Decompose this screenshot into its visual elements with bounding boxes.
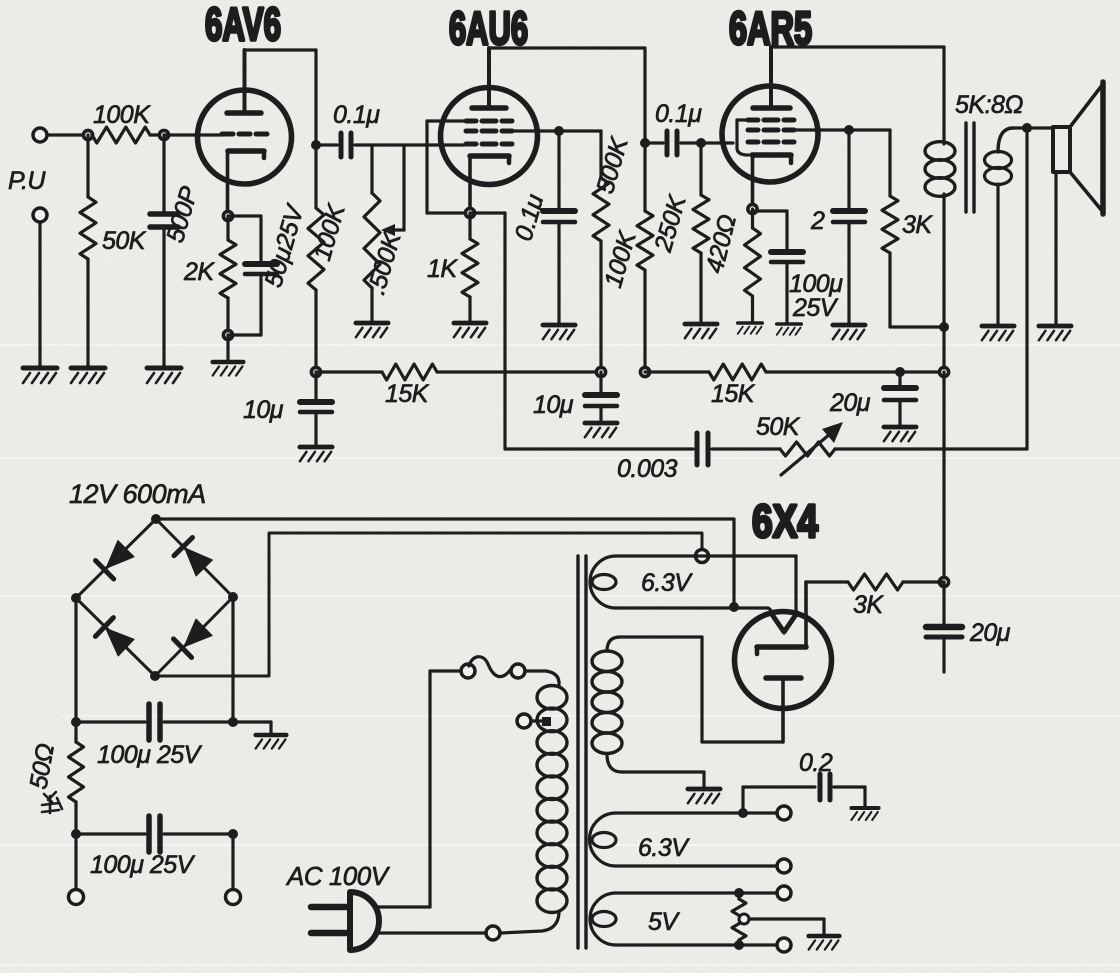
svg-text:2: 2 [810,207,825,235]
terminal 6.3V second top [777,806,791,820]
wire V1 plate top run [245,48,317,51]
wire speaker return [1054,172,1057,325]
wire fuse to primary [525,669,546,672]
diode D4 bottom-right [184,619,212,647]
wire 100K to node B [150,133,164,136]
resistor 100K plate load V1 [314,145,317,208]
AC plug prongs [311,904,349,911]
power transformer core [576,556,579,948]
svg-text:6.3V: 6.3V [641,569,693,597]
wire V3 plate top run [771,45,944,48]
ground 500K pot [356,323,388,337]
ground 20u rail [884,427,916,441]
ground secondary [982,326,1014,340]
terminal AC line [486,926,500,940]
node rail 20u junction [895,367,905,377]
6X4 plate [766,675,801,681]
terminal DC out right [226,890,241,905]
node 5V bottom junction [734,940,744,950]
wire feedback bottom left [505,447,693,450]
node rail B+ junction [939,367,948,376]
V2 g3 dashes [466,119,476,124]
wire DC out right [231,834,234,889]
resistor 420ohm cathode V3 [751,209,754,228]
ground 10u second [585,423,617,437]
primary tap wire [531,719,543,722]
capacitor 0.1u screen bypass [557,131,560,211]
output transformer core [964,123,967,212]
capacitor 0.003 feedback [695,433,700,465]
node 5V top junction [734,888,744,898]
svg-text:2K: 2K [183,258,215,286]
terminal DC out left [69,890,84,905]
svg-text:0.003: 0.003 [617,455,678,483]
svg-text:6AV6: 6AV6 [205,0,281,50]
AC plug body [350,892,379,950]
diode D3 bottom-left [106,628,134,656]
svg-text:6X4: 6X4 [752,495,818,547]
svg-text:5V: 5V [648,908,680,936]
wire grid line V2 [372,143,464,146]
pot 50K arrow [781,434,830,475]
capacitor 50u 25V cathode bypass [228,214,261,217]
ground heater supply [256,735,287,749]
V3 g2 dashes [748,128,758,133]
ground screen bypass [543,325,575,339]
hum balance pot [737,893,740,899]
node 6.3V second junction [738,808,748,818]
wire row1 to ground [233,720,271,723]
node rail 100K junction [596,367,605,376]
ground 100u [777,324,801,335]
node speaker feedback junction [1022,123,1032,133]
heater winding 6.3V second [590,813,617,866]
node filter row1 right junction [228,717,238,727]
ground V1 cathode [213,362,244,376]
terminal 5V top [777,886,791,900]
output transformer primary coil [925,142,955,161]
wire AC line to plug [376,931,486,934]
resistor 2K cathode V1 [226,216,229,240]
V2 cathode [470,153,509,159]
V3 cathode [752,152,791,158]
hum pot wiper [739,914,749,924]
wire 2K to ground [226,335,229,360]
resistor 500K plate load V2 [643,143,646,211]
svg-text:3K: 3K [902,211,933,239]
svg-text:20μ: 20μ [829,389,871,417]
resistor 100K screen feed [559,129,601,132]
wire plug hot to fuse [375,905,430,908]
ground 0.2 cap [851,808,878,820]
wire bridge top to heater winding [156,517,734,520]
capacitor 10u decoupling first [314,372,317,402]
ground 2u [833,325,865,339]
node B junction [159,130,168,139]
wire feedback mid [712,447,780,450]
ground speaker [1039,326,1071,340]
resistor 15K rail first [316,370,382,373]
capacitor 20u reservoir [942,582,945,627]
wire secondary to speaker [1013,126,1053,129]
pentode V2 6AU6 envelope [441,88,538,185]
resistor 50K grid leak [86,135,89,197]
V3 plate [753,105,790,111]
wire input to node A [47,133,88,136]
terminal heater winding top [696,550,709,563]
node rail start junction [311,367,320,376]
node V3 grid junction [696,138,706,148]
capacitor 100u 25V filter second [76,832,145,835]
HV winding [607,637,620,651]
wire rail to B+ line [900,370,944,373]
wire primary bottom to plug [501,913,559,933]
svg-text:3K: 3K [853,591,884,619]
wire P.U return down [38,222,41,367]
V2 g2 dashes [466,129,476,134]
wire grid line V3 [701,141,733,144]
node V3 screen junction [844,125,854,135]
svg-text:20μ: 20μ [969,619,1011,647]
node heater winding bottom junction [729,602,739,612]
node B+ transformer junction [939,322,949,332]
wire 6X4 plate to HV winding [702,740,783,743]
capacitor 0.1u coupling V1-V2 [316,143,337,146]
svg-text:25V: 25V [792,294,839,322]
wire B+ line down [942,372,945,582]
node filter row2 right junction [228,829,238,839]
node A junction [83,130,92,139]
diode D1 top-left [106,541,134,569]
ground 500P [147,368,181,383]
V1 cathode junction [223,211,232,220]
wire V2 plate top run [489,46,645,49]
potentiometer .500K volume [370,145,373,193]
bridge node right [228,592,238,602]
rectifier 6X4 envelope [735,612,832,709]
capacitor 2u screen bypass [847,130,850,211]
V1 cathode [228,148,264,154]
fuse [461,664,475,678]
resistor 3K screen V3 [849,128,890,131]
output transformer secondary coil [998,128,1013,152]
V3 screen line [794,128,849,131]
ground 420ohm [738,323,762,334]
svg-text:50K: 50K [102,227,147,255]
V2 screen line [512,129,559,132]
bridge node bottom [150,671,160,681]
triode V1 6AV6 envelope [198,90,292,184]
svg-text:100μ 25V: 100μ 25V [90,851,196,879]
potentiometer 50K feedback [780,442,835,456]
terminal 6.3V second bottom [777,859,791,873]
6X4 cathode [755,647,760,654]
bridge node top [151,514,161,524]
V1 plate [227,110,261,116]
V1 grid dashes [222,132,233,137]
V2 plate [472,105,506,111]
rectifier winding 5V [590,893,616,945]
wire cathode to feedback [470,211,505,214]
node filter row2 left junction [71,829,81,839]
terminal 5V bottom [777,938,791,952]
svg-text:5K:8Ω: 5K:8Ω [955,91,1023,119]
wire bridge left down [74,598,77,722]
ground 10u first [300,447,332,461]
capacitor 500P input [162,135,165,214]
capacitor 0.1u coupling V2-V3 [645,141,663,144]
resistor 3K filter 6X4 [903,580,944,583]
ground 50K [71,368,105,383]
wire DC out left [74,834,77,889]
wire bridge right down [231,597,234,722]
diode D2 top-right [185,548,213,576]
ground 1K [454,323,486,337]
primary tap terminal [517,714,531,728]
node filter row1 left junction [71,717,81,727]
resistor 100K series input [92,127,150,143]
wire bridge bottom to heater winding [155,533,702,676]
power transformer primary coil [537,686,567,710]
node V2 plate coupling junction [640,138,650,148]
svg-text:50K: 50K [756,413,801,441]
ground HV winding [688,789,720,803]
6X4 heater filament V [771,613,797,632]
node V2 screen junction [554,126,564,136]
input terminal P.U hot [33,128,47,142]
V3 g3 dashes [748,118,758,123]
node rail 500K junction [640,367,649,376]
wire B+ vertical [942,327,945,372]
svg-text:15K: 15K [385,380,430,408]
svg-text:0.2: 0.2 [799,749,833,777]
V3 g1 dashes [748,140,758,145]
speaker driver [1053,127,1070,172]
resistor 50ohm filter [74,722,77,742]
pot wiper arrow [402,145,405,230]
node V1 plate / coupling junction [311,140,321,150]
capacitor 20u decoupling [898,372,901,388]
V2 cathode junction [465,208,474,217]
resistor 15K rail second [645,370,709,373]
svg-text:10μ: 10μ [533,391,574,419]
heater winding 6.3V top [590,556,616,608]
bridge node left [71,593,81,603]
svg-text:0.1μ: 0.1μ [333,101,380,129]
resistor 250K grid leak V3 [699,143,702,195]
resistor 1K cathode V2 [468,213,471,239]
V3 suppressor tie [737,118,748,121]
svg-text:12V 600mA: 12V 600mA [69,479,206,509]
svg-text:1K: 1K [427,255,458,283]
ground 250K [685,324,717,338]
node 6X4 output junction [939,577,948,586]
svg-text:100K: 100K [93,101,151,129]
capacitor 10u decoupling second [599,372,602,395]
ground hum pot [809,936,840,950]
input terminal P.U return [33,208,47,222]
svg-text:6.3V: 6.3V [638,834,690,862]
svg-text:AC 100V: AC 100V [285,861,391,891]
V3 cathode junction [748,204,757,213]
wire node B to grid V1 [164,133,222,136]
svg-text:0.1μ: 0.1μ [655,100,702,128]
capacitor 100u 25V filter first [76,720,145,723]
V2 g1 dashes [466,142,476,147]
V2 suppressor tie [427,119,466,122]
capacitor 0.2 line bypass [818,774,823,800]
svg-text:10μ: 10μ [243,396,284,424]
pentode V3 6AR5 envelope [722,86,818,182]
bridge rectifier diamond [76,519,233,676]
ground input return [23,368,57,383]
wire 6.3V to 0.2 cap [741,787,744,813]
capacitor 100u 25V cathode bypass V3 [753,209,788,212]
svg-text:P.U: P.U [8,167,46,195]
svg-text:15K: 15K [711,380,756,408]
wire feedback right [835,447,1027,450]
svg-text:100μ 25V: 100μ 25V [97,741,203,769]
node 2K bottom junction [223,330,232,339]
